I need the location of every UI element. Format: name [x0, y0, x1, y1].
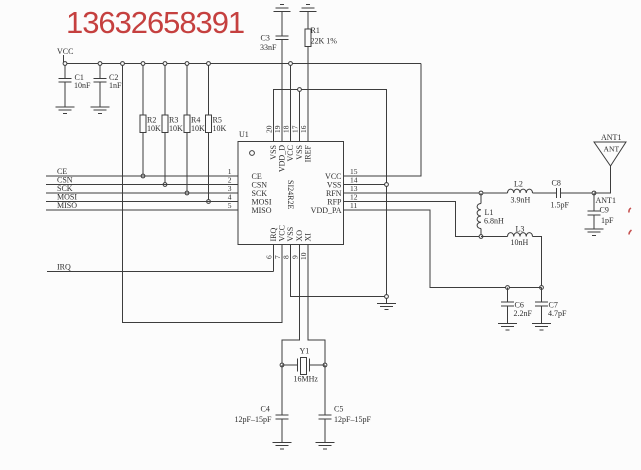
svg-text:5: 5 — [228, 201, 232, 210]
wire CSN — [46, 176, 238, 185]
capacitor C3 — [260, 12, 289, 142]
wire pin 10 XI to crystal — [308, 245, 325, 366]
svg-text:2.2nF: 2.2nF — [514, 309, 533, 318]
svg-text:10K: 10K — [191, 124, 205, 133]
svg-text:C9: C9 — [600, 206, 609, 215]
svg-text:C3: C3 — [261, 34, 270, 43]
resistor R1 — [305, 12, 337, 142]
svg-text:C4: C4 — [261, 405, 270, 414]
junction VCC-feed/rail — [121, 62, 125, 66]
svg-text:10K: 10K — [147, 124, 161, 133]
ground below chip — [377, 298, 396, 309]
svg-text:C8: C8 — [552, 179, 561, 188]
capacitor C7 — [535, 288, 567, 324]
svg-text:10K: 10K — [213, 124, 227, 133]
resistor R2 — [140, 64, 161, 177]
junction R4/rail — [185, 62, 189, 66]
wire RFP to L3 — [481, 236, 508, 238]
svg-text:16MHz: 16MHz — [294, 375, 319, 384]
wire: VCC rail — [64, 63, 422, 65]
junction VSS/ground — [385, 295, 389, 299]
svg-text:IREF: IREF — [304, 144, 313, 162]
wire SCK — [46, 184, 238, 193]
junction R2/rail — [141, 62, 145, 66]
junction R5/rail — [207, 62, 211, 66]
svg-text:VCC: VCC — [286, 145, 295, 161]
capacitor C1 — [59, 64, 92, 108]
svg-text:12pF–15pF: 12pF–15pF — [235, 415, 272, 424]
junction pin18/rail — [289, 62, 293, 66]
junction crystal left — [280, 363, 284, 367]
junction pin17/VSS — [298, 88, 302, 92]
svg-text:L2: L2 — [514, 180, 523, 189]
svg-text:C5: C5 — [334, 405, 343, 414]
ground under C4 — [273, 443, 292, 449]
wire pin 14 VSS — [344, 184, 387, 186]
capacitor C9 — [588, 193, 615, 229]
resistor R3 — [162, 64, 183, 185]
inductor L2 — [508, 180, 533, 205]
ground under C6 — [498, 324, 517, 330]
wire: pin 8 VSS to ground — [291, 245, 387, 297]
svg-text:22K 1%: 22K 1% — [311, 37, 338, 46]
junction R3/CSN — [163, 183, 167, 187]
svg-text:R1: R1 — [311, 26, 320, 35]
resistor R5 — [206, 64, 227, 202]
junction R3/rail — [163, 62, 167, 66]
wire: pin 20 VSS up over and down to ground — [274, 90, 387, 297]
svg-text:12pF–15pF: 12pF–15pF — [334, 415, 371, 424]
inductor L3 — [508, 225, 533, 248]
junction C1/rail — [63, 62, 67, 66]
svg-text:1nF: 1nF — [109, 81, 122, 90]
wire CE — [46, 167, 238, 176]
junction C7 node — [540, 286, 544, 290]
wire pin 12 RFP — [344, 202, 482, 237]
ground under C2 — [91, 107, 110, 113]
svg-text:Y1: Y1 — [300, 347, 310, 356]
wire MOSI — [46, 193, 238, 202]
ground under C9 — [585, 229, 604, 235]
svg-text:ANT: ANT — [604, 145, 620, 154]
svg-text:6.8nH: 6.8nH — [484, 217, 504, 226]
svg-text:1.5pF: 1.5pF — [551, 201, 570, 210]
wire pin 15 VCC to rail — [344, 64, 422, 177]
wire pin 9 XO to crystal — [282, 245, 300, 366]
svg-text:VCC: VCC — [57, 47, 73, 56]
svg-text:MISO: MISO — [252, 206, 272, 215]
wire node to antenna — [594, 166, 611, 193]
inductor L1 — [477, 193, 504, 237]
svg-text:11: 11 — [350, 201, 357, 210]
capacitor C2 — [94, 64, 123, 108]
junction crystal right — [323, 363, 327, 367]
wire pin 13 RFN — [344, 192, 508, 194]
svg-text:33nF: 33nF — [260, 43, 277, 52]
ground (inverted) above R1 — [300, 5, 317, 12]
power symbol VCC — [57, 47, 73, 64]
capacitor C8 — [551, 179, 570, 210]
wire: pin 17 VSS stub — [299, 90, 301, 142]
antenna ANT1 — [594, 133, 626, 166]
wire C8 to antenna node — [561, 192, 595, 194]
ground under C5 — [316, 443, 335, 449]
junction R2/CE — [141, 174, 145, 178]
svg-text:10nH: 10nH — [511, 238, 529, 247]
svg-text:8: 8 — [282, 255, 291, 259]
wire MISO — [46, 201, 238, 210]
svg-text:ANT1: ANT1 — [601, 133, 621, 142]
wire: pin 18 VCC stub — [290, 64, 292, 142]
svg-text:3.9nH: 3.9nH — [511, 196, 531, 205]
junction C2/rail — [98, 62, 102, 66]
svg-text:4.7pF: 4.7pF — [548, 309, 567, 318]
capacitor C4 — [235, 365, 289, 443]
svg-text:10nF: 10nF — [74, 81, 91, 90]
ground under C7 — [532, 324, 551, 330]
ground under C1 — [56, 107, 75, 113]
svg-text:1pF: 1pF — [601, 216, 614, 225]
wire L2 to C8 — [533, 192, 557, 194]
chip U1 body — [238, 130, 344, 245]
junction C6 node — [506, 286, 510, 290]
svg-text:VSS: VSS — [286, 227, 295, 242]
svg-text:XI: XI — [304, 233, 313, 242]
svg-text:VDD_PA: VDD_PA — [311, 206, 342, 215]
junction pin14/VSS — [385, 183, 389, 187]
svg-text:10: 10 — [299, 252, 308, 260]
wire IRQ — [47, 245, 274, 272]
svg-text:10K: 10K — [169, 124, 183, 133]
capacitor C6 — [501, 288, 533, 324]
svg-text:IRQ: IRQ — [57, 263, 71, 272]
junction RFN/L1 — [479, 191, 483, 195]
svg-text:U1: U1 — [239, 130, 249, 139]
junction RFP/L1 — [479, 235, 483, 239]
svg-text:16: 16 — [299, 125, 308, 133]
svg-text:ANT1: ANT1 — [596, 196, 616, 205]
watermark phone number — [66, 5, 244, 41]
svg-text:18: 18 — [282, 125, 291, 133]
svg-text:L3: L3 — [516, 225, 525, 234]
resistor R4 — [184, 64, 205, 194]
junction R5/MOSI — [207, 200, 211, 204]
svg-text:MISO: MISO — [57, 201, 77, 210]
junction R4/SCK — [185, 191, 189, 195]
svg-text:SI24R2E: SI24R2E — [286, 180, 295, 209]
red watermark fragment lower — [629, 230, 632, 235]
junction antenna node — [592, 191, 596, 195]
crystal Y1 — [282, 347, 325, 384]
ground (inverted) above C3 — [274, 5, 291, 12]
wire pin 11 VDD_PA — [344, 210, 542, 288]
red watermark fragment upper — [629, 208, 631, 213]
wire L3 down to C7 — [533, 237, 542, 288]
wire: VCC feed down to pin 7 — [123, 64, 283, 323]
capacitor C5 — [319, 365, 372, 443]
